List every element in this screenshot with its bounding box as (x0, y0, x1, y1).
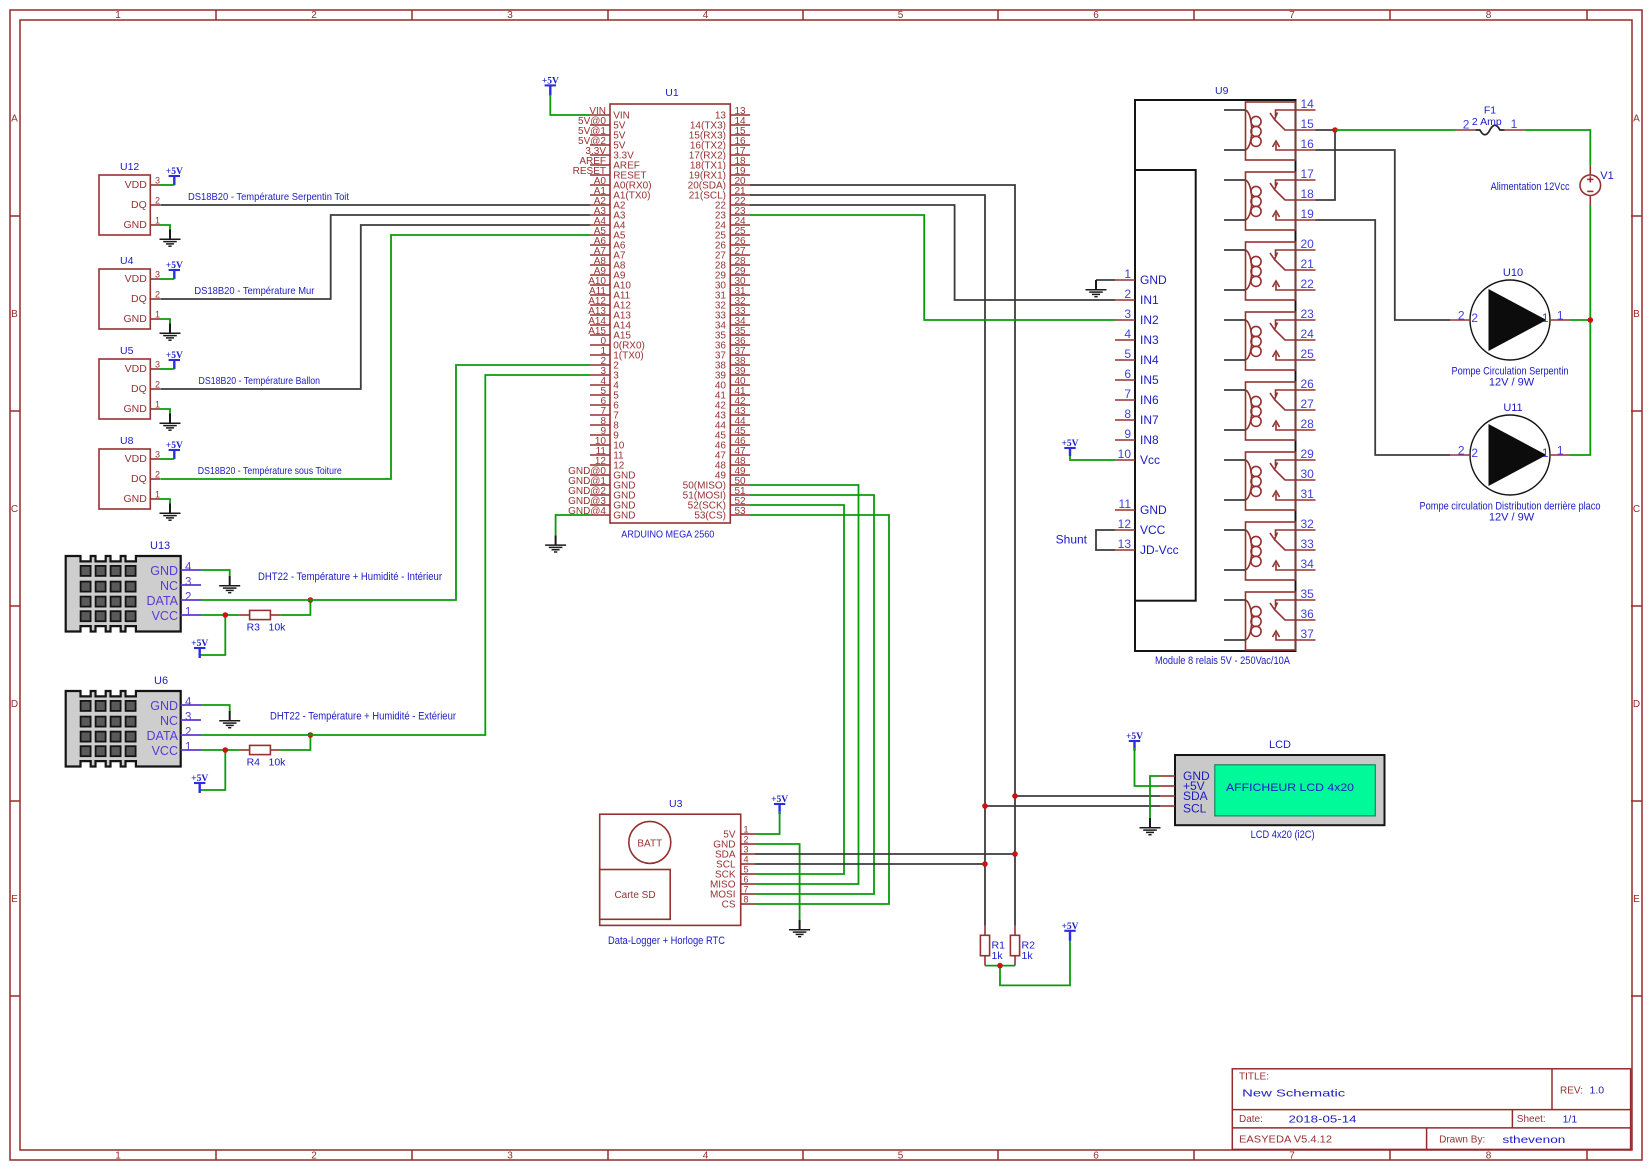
wire VCC branch to +5V (200, 750, 226, 790)
pin A10 (left) (590, 284, 610, 286)
svg-text:D: D (11, 699, 18, 710)
DS18B20 sensor U8 (99, 435, 160, 509)
svg-text:A: A (11, 114, 18, 125)
pin 15 (right) (730, 134, 750, 136)
svg-text:R3: R3 (247, 622, 261, 634)
power +5V (U8 VDD) (166, 441, 183, 459)
svg-text:1: 1 (1542, 311, 1549, 325)
svg-text:VCC: VCC (152, 609, 178, 623)
svg-text:21: 21 (1301, 257, 1315, 271)
svg-text:DQ: DQ (131, 199, 147, 211)
svg-text:9: 9 (1124, 427, 1131, 441)
pin 48 (right) (730, 464, 750, 466)
pin A14 (left) (590, 324, 610, 326)
svg-text:31: 31 (1301, 487, 1315, 501)
pin A1 (left) (590, 194, 610, 196)
svg-text:REV:: REV: (1560, 1086, 1583, 1097)
svg-text:GND: GND (123, 219, 147, 231)
relay 7 of U9 (pins 32-34) (1224, 517, 1316, 580)
title block (1232, 1069, 1630, 1150)
svg-text:35: 35 (1301, 587, 1315, 601)
svg-text:Drawn By:: Drawn By: (1439, 1135, 1485, 1146)
pin 5V@0 (left) (590, 124, 610, 126)
ground (U6 GND) (219, 711, 240, 728)
svg-text:IN7: IN7 (1140, 413, 1159, 427)
ground (U1 GND) (545, 535, 566, 552)
svg-text:6: 6 (1124, 367, 1131, 381)
wire U8 DQ to U1 A5 (160, 235, 590, 479)
svg-text:3: 3 (155, 176, 160, 186)
svg-text:Shunt: Shunt (1056, 533, 1088, 547)
svg-text:DQ: DQ (131, 293, 147, 305)
svg-text:17: 17 (1301, 167, 1315, 181)
pin 53 (right) (730, 514, 750, 516)
pin 3 (left) (590, 374, 610, 376)
pin GND@4 (left) (590, 514, 610, 516)
svg-text:U9: U9 (1215, 85, 1229, 97)
wire U9 16 to U10 pin2 (1316, 150, 1451, 320)
relay 6 of U9 (pins 29-31) (1224, 447, 1316, 510)
svg-text:3: 3 (744, 845, 749, 855)
wire U3 SDA to net SDA (755, 853, 1015, 855)
svg-text:3: 3 (155, 450, 160, 460)
svg-text:DS18B20 - Température Ballon: DS18B20 - Température Ballon (199, 375, 321, 387)
resistor R1 1k (980, 926, 1005, 966)
wire U9 15 to fuse junction (1316, 129, 1336, 131)
wire U1 51(MOSI) to U3 MOSI (750, 495, 874, 894)
svg-text:EASYEDA V5.4.12: EASYEDA V5.4.12 (1239, 1135, 1332, 1146)
pin A13 (left) (590, 314, 610, 316)
pin 8 (left) (590, 424, 610, 426)
pin A12 (left) (590, 304, 610, 306)
svg-text:2: 2 (155, 470, 160, 480)
svg-text:1: 1 (115, 10, 121, 21)
pin 3 SDA (741, 853, 755, 855)
relay module U9 (1135, 85, 1296, 667)
pin 27 (right) (730, 254, 750, 256)
svg-text:7: 7 (1124, 387, 1131, 401)
svg-text:34: 34 (1301, 557, 1315, 571)
wire U13 DATA to U1 pin2 (201, 365, 590, 600)
svg-text:14: 14 (1301, 97, 1315, 111)
wire junction to +5V (1000, 941, 1070, 986)
pin 17 (right) (730, 154, 750, 156)
relay 1 of U9 (pins 14-16) (1224, 97, 1316, 160)
power +5V (U9 Vcc) (1061, 439, 1078, 456)
U9 pin 3 IN2 (1115, 319, 1135, 321)
svg-text:11: 11 (1119, 497, 1132, 511)
U9 pin 10 Vcc (1115, 459, 1135, 461)
power +5V (U12 VDD) (166, 167, 183, 185)
wire fuse to V1 (1524, 130, 1590, 166)
svg-text:1: 1 (1542, 446, 1549, 460)
svg-text:DQ: DQ (131, 473, 147, 485)
pin 6 (left) (590, 404, 610, 406)
svg-text:U4: U4 (120, 255, 134, 267)
LCD pin +5V (1160, 785, 1175, 787)
svg-text:Alimentation 12Vcc: Alimentation 12Vcc (1491, 181, 1570, 193)
svg-text:8: 8 (1124, 407, 1131, 421)
pin 4 SCL (741, 863, 755, 865)
pin 36 (right) (730, 344, 750, 346)
svg-text:53: 53 (735, 506, 747, 517)
pin 23 (right) (730, 214, 750, 216)
wire U3 SCL to net SCL (755, 863, 985, 865)
pin 5 SCK (741, 873, 755, 875)
svg-text:DHT22 - Température + Humidité: DHT22 - Température + Humidité - Intérie… (258, 571, 442, 583)
pin 12 (left) (590, 464, 610, 466)
wire U12 GND to ground (160, 225, 170, 230)
wire shunt VCC to JD-Vcc (1096, 530, 1115, 550)
relay 4 of U9 (pins 23-25) (1224, 307, 1316, 370)
pin VIN (left) (590, 114, 610, 116)
pin 35 (right) (730, 334, 750, 336)
wire SCL branch to LCD (985, 805, 1160, 807)
svg-text:3: 3 (155, 360, 160, 370)
svg-text:3: 3 (185, 577, 191, 589)
pin 21 (right) (730, 194, 750, 196)
svg-text:IN6: IN6 (1140, 393, 1159, 407)
svg-text:23: 23 (1301, 307, 1315, 321)
U9 pin 12 VCC (1115, 529, 1135, 531)
svg-text:10: 10 (1118, 447, 1132, 461)
wire +5V to LCD (1135, 748, 1161, 786)
wire U8 GND to ground (160, 499, 170, 504)
svg-text:U1: U1 (665, 87, 679, 99)
svg-text:19: 19 (1301, 207, 1315, 221)
svg-text:DS18B20 - Température Mur: DS18B20 - Température Mur (194, 285, 314, 297)
wire U1 22 to U9 IN1 (750, 205, 1115, 300)
LCD pin GND (1160, 775, 1175, 777)
ground (U3 GND) (789, 920, 810, 937)
svg-text:DATA: DATA (147, 729, 179, 743)
svg-text:36: 36 (1301, 607, 1315, 621)
wire net SDA: U1 20(SDA) down to R2 (750, 185, 1015, 926)
LCD display module (1160, 739, 1385, 841)
wire U1 23 to U9 IN2 (750, 215, 1115, 320)
pin 7 (left) (590, 414, 610, 416)
pin A2 (left) (590, 204, 610, 206)
pin GND@1 (left) (590, 484, 610, 486)
pin 1 5V (741, 833, 755, 835)
svg-text:2: 2 (1458, 309, 1465, 323)
wire U1 50(MISO) to U3 MISO (750, 485, 859, 884)
svg-text:U8: U8 (120, 435, 134, 447)
svg-text:5: 5 (1124, 347, 1131, 361)
svg-text:C: C (1633, 504, 1640, 515)
motor pump U11 (1420, 402, 1601, 524)
svg-text:1k: 1k (992, 950, 1004, 962)
pin 24 (right) (730, 224, 750, 226)
svg-text:7: 7 (1289, 1151, 1295, 1162)
pin 38 (right) (730, 364, 750, 366)
ground (U5 GND) (160, 414, 181, 431)
svg-text:2: 2 (185, 592, 191, 604)
svg-text:IN2: IN2 (1140, 313, 1159, 327)
svg-text:37: 37 (1301, 627, 1315, 641)
pin 28 (right) (730, 264, 750, 266)
pin 30 (right) (730, 284, 750, 286)
pin 33 (right) (730, 314, 750, 316)
pin 13 (right) (730, 114, 750, 116)
pin RESET (left) (590, 174, 610, 176)
pin 41 (right) (730, 394, 750, 396)
svg-text:2: 2 (155, 290, 160, 300)
svg-text:4: 4 (703, 1151, 709, 1162)
pin GND@2 (left) (590, 494, 610, 496)
wire U12 DQ to U1 A2 (160, 204, 590, 206)
svg-text:12: 12 (1118, 517, 1132, 531)
svg-text:GND: GND (613, 511, 635, 522)
svg-text:3: 3 (507, 10, 513, 21)
svg-text:4: 4 (744, 855, 749, 865)
svg-text:V1: V1 (1600, 170, 1613, 182)
pin 9 (left) (590, 434, 610, 436)
LCD pin SDA (1160, 795, 1175, 797)
svg-text:2: 2 (185, 727, 191, 739)
svg-text:29: 29 (1301, 447, 1315, 461)
svg-text:IN1: IN1 (1140, 293, 1159, 307)
pin 49 (right) (730, 474, 750, 476)
svg-text:Date:: Date: (1239, 1114, 1263, 1125)
ground (U8 GND) (160, 504, 181, 521)
pin 46 (right) (730, 444, 750, 446)
ground (U4 GND) (160, 324, 181, 341)
pin 14 (right) (730, 124, 750, 126)
svg-text:20: 20 (1301, 237, 1315, 251)
pin 6 MISO (741, 883, 755, 885)
wire SDA branch to LCD (1015, 795, 1160, 797)
svg-text:VDD: VDD (125, 363, 148, 375)
svg-text:8: 8 (744, 895, 749, 905)
pin 26 (right) (730, 244, 750, 246)
U9 pin 1 GND (1115, 279, 1135, 281)
wire +5V to U9 Vcc (1070, 456, 1115, 460)
ground (LCD GND) (1140, 818, 1161, 835)
relay 5 of U9 (pins 26-28) (1224, 377, 1316, 440)
U9 pin 2 IN1 (1115, 299, 1135, 301)
svg-text:26: 26 (1301, 377, 1315, 391)
pin 34 (right) (730, 324, 750, 326)
pin 3.3V (left) (590, 154, 610, 156)
svg-text:18: 18 (1301, 187, 1315, 201)
wire U6 GND to ground (201, 705, 230, 711)
svg-text:8: 8 (1486, 1151, 1492, 1162)
svg-text:2: 2 (1463, 118, 1470, 132)
svg-text:VDD: VDD (125, 453, 148, 465)
node R3/DATA junction (308, 597, 314, 603)
pin 2 (left) (590, 364, 610, 366)
svg-text:6: 6 (1093, 1151, 1099, 1162)
svg-text:A: A (1633, 114, 1640, 125)
wire U5 DQ to U1 A4 (160, 225, 590, 389)
svg-text:GND: GND (150, 699, 178, 713)
svg-text:GND: GND (123, 493, 147, 505)
svg-text:NC: NC (160, 579, 178, 593)
svg-text:U5: U5 (120, 345, 134, 357)
U9 pin 11 GND (1115, 509, 1135, 511)
svg-text:VDD: VDD (125, 179, 148, 191)
ground (U9 GND) (1086, 280, 1107, 297)
svg-text:NC: NC (160, 714, 178, 728)
U9 pin 8 IN7 (1115, 419, 1135, 421)
svg-text:2: 2 (1471, 446, 1478, 460)
svg-text:5: 5 (898, 10, 904, 21)
node 12V node (1588, 317, 1594, 323)
pin 31 (right) (730, 294, 750, 296)
svg-text:LCD: LCD (1269, 739, 1291, 751)
wire U9 19 to U11 pin2 (1316, 220, 1451, 455)
pin A3 (left) (590, 214, 610, 216)
svg-text:U3: U3 (669, 798, 683, 810)
svg-text:GND: GND (1140, 273, 1167, 287)
svg-text:GND: GND (1140, 503, 1167, 517)
svg-text:E: E (1633, 894, 1640, 905)
svg-text:New Schematic: New Schematic (1242, 1088, 1345, 1100)
relay 8 of U9 (pins 35-37) (1224, 587, 1316, 650)
svg-text:3: 3 (507, 1151, 513, 1162)
pin 39 (right) (730, 374, 750, 376)
svg-text:2: 2 (155, 196, 160, 206)
wire R4 right to DATA (280, 735, 310, 750)
svg-text:1: 1 (1557, 444, 1564, 458)
svg-text:Sheet:: Sheet: (1517, 1114, 1546, 1125)
pin A11 (left) (590, 294, 610, 296)
resistor R3 10k (240, 610, 287, 633)
svg-text:CS: CS (722, 900, 736, 911)
svg-text:13: 13 (1118, 537, 1132, 551)
node SDA/LCD (1012, 793, 1018, 799)
svg-text:GND: GND (150, 564, 178, 578)
pin 42 (right) (730, 404, 750, 406)
svg-text:28: 28 (1301, 417, 1315, 431)
svg-text:16: 16 (1301, 137, 1315, 151)
svg-text:2: 2 (1124, 287, 1131, 301)
U9 pin 4 IN3 (1115, 339, 1135, 341)
node R4/DATA junction (308, 732, 314, 738)
svg-text:DQ: DQ (131, 383, 147, 395)
pin A5 (left) (590, 234, 610, 236)
svg-text:DATA: DATA (147, 594, 179, 608)
svg-text:1: 1 (1557, 309, 1564, 323)
relay 3 of U9 (pins 20-22) (1224, 237, 1316, 300)
node R4/VCC junction (223, 747, 229, 753)
pin 43 (right) (730, 414, 750, 416)
U9 control section box (1135, 170, 1196, 601)
svg-text:1: 1 (155, 310, 160, 320)
svg-text:B: B (11, 309, 18, 320)
wire U4 VDD to +5V (160, 278, 174, 280)
svg-text:1k: 1k (1022, 950, 1034, 962)
svg-text:1: 1 (115, 1151, 121, 1162)
svg-text:6: 6 (744, 875, 749, 885)
svg-text:U12: U12 (120, 161, 139, 173)
svg-text:VCC: VCC (1140, 523, 1166, 537)
svg-text:2: 2 (311, 1151, 317, 1162)
pin 40 (right) (730, 384, 750, 386)
relay 2 of U9 (pins 17-19) (1224, 167, 1316, 230)
pin A0 (left) (590, 184, 610, 186)
pin 16 (right) (730, 144, 750, 146)
pin 5 (left) (590, 394, 610, 396)
svg-text:2: 2 (744, 835, 749, 845)
svg-text:sthevenon: sthevenon (1502, 1134, 1565, 1146)
svg-text:TITLE:: TITLE: (1239, 1072, 1269, 1083)
svg-text:5: 5 (898, 1151, 904, 1162)
svg-text:8: 8 (1486, 10, 1492, 21)
svg-text:U10: U10 (1503, 267, 1523, 279)
resistor R2 1k (1010, 926, 1035, 966)
svg-text:IN8: IN8 (1140, 433, 1159, 447)
svg-text:SCL: SCL (1183, 802, 1207, 816)
power +5V (U3 5V) (771, 795, 788, 814)
wire U1 52(SCK) to U3 SCK (750, 505, 844, 874)
svg-text:27: 27 (1301, 397, 1315, 411)
svg-text:JD-Vcc: JD-Vcc (1140, 543, 1179, 557)
pin 10 (left) (590, 444, 610, 446)
svg-text:1: 1 (155, 400, 160, 410)
pin 52 (right) (730, 504, 750, 506)
svg-text:R4: R4 (247, 757, 261, 769)
pin 2 GND (741, 843, 755, 845)
DS18B20 sensor U5 (99, 345, 160, 419)
ground (U12 GND) (160, 230, 181, 247)
U9 pin 6 IN5 (1115, 379, 1135, 381)
node relay1 common (1332, 127, 1338, 133)
DS18B20 sensor U12 (99, 161, 160, 235)
pin 37 (right) (730, 354, 750, 356)
power +5V (LCD) (1126, 732, 1143, 751)
pin 51 (right) (730, 494, 750, 496)
svg-text:Carte SD: Carte SD (614, 890, 655, 901)
svg-text:3: 3 (1124, 307, 1131, 321)
node SCL/LCD (982, 803, 988, 809)
svg-text:4: 4 (185, 562, 192, 574)
svg-text:4: 4 (1124, 327, 1131, 341)
U9 pin 9 IN8 (1115, 439, 1135, 441)
svg-text:VCC: VCC (152, 744, 178, 758)
voltage source V1 (1580, 166, 1614, 205)
svg-text:LCD 4x20 (i2C): LCD 4x20 (i2C) (1251, 829, 1315, 841)
resistor R4 10k (240, 745, 287, 768)
node SDA/U3 (1012, 851, 1018, 857)
pin 29 (right) (730, 274, 750, 276)
wire +5V to U1 VIN (550, 95, 590, 115)
svg-text:1: 1 (1511, 117, 1518, 131)
pin 11 (left) (590, 454, 610, 456)
pin 44 (right) (730, 424, 750, 426)
LCD pin SCL (1160, 805, 1175, 807)
svg-text:2: 2 (155, 380, 160, 390)
svg-text:10k: 10k (269, 757, 287, 769)
svg-text:DS18B20 - Température Serpenti: DS18B20 - Température Serpentin Toit (188, 191, 349, 203)
pin 4 (left) (590, 384, 610, 386)
pin 7 MOSI (741, 893, 755, 895)
svg-text:Module 8 relais 5V - 250Vac/10: Module 8 relais 5V - 250Vac/10A (1155, 655, 1291, 667)
svg-text:25: 25 (1301, 347, 1315, 361)
svg-text:1: 1 (155, 216, 160, 226)
wire net SCL: U1 21(SCL) down to R1 (750, 195, 985, 926)
wire U6 DATA to U1 pin3 (201, 375, 590, 735)
pin 20 (right) (730, 184, 750, 186)
wire U5 GND to ground (160, 409, 170, 414)
DHT22 sensor U13 (66, 540, 201, 632)
node R3/VCC junction (223, 612, 229, 618)
svg-text:1: 1 (155, 490, 160, 500)
pin 5V@2 (left) (590, 144, 610, 146)
wire U3 5V to +5V (755, 811, 780, 834)
svg-text:4: 4 (185, 697, 192, 709)
